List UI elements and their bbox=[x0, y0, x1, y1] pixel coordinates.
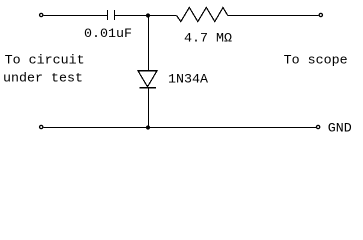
wire node A to resistor bbox=[148, 15, 177, 17]
wire capacitor to node A bbox=[115, 15, 148, 17]
terminal top-left bbox=[40, 13, 43, 16]
svg-text:To circuit: To circuit bbox=[5, 54, 85, 69]
wire node A down to diode anode bbox=[148, 16, 150, 72]
wire diode cathode to node B bbox=[148, 88, 150, 128]
wire top-left to capacitor bbox=[43, 15, 107, 17]
wire bottom rail bbox=[43, 127, 316, 129]
capacitor C1 left plate bbox=[107, 10, 109, 20]
capacitor C1 right plate bbox=[114, 10, 116, 20]
svg-text:1N34A: 1N34A bbox=[168, 73, 208, 88]
terminal top-right bbox=[319, 13, 322, 16]
terminal bottom-right bbox=[316, 125, 319, 128]
resistor R1 zigzag bbox=[177, 8, 228, 22]
node A junction dot bbox=[146, 13, 150, 17]
diode D1 triangle bbox=[138, 71, 157, 87]
svg-text:To scope: To scope bbox=[284, 54, 348, 69]
svg-text:0.01uF: 0.01uF bbox=[84, 27, 132, 42]
svg-text:GND: GND bbox=[328, 122, 352, 137]
terminal bottom-left bbox=[40, 125, 43, 128]
diode D1 cathode bar bbox=[140, 87, 157, 89]
wire resistor to terminal top-right bbox=[228, 15, 319, 17]
svg-text:under test: under test bbox=[3, 72, 83, 87]
node B junction dot bbox=[146, 125, 150, 129]
svg-text:4.7 MΩ: 4.7 MΩ bbox=[184, 32, 232, 47]
